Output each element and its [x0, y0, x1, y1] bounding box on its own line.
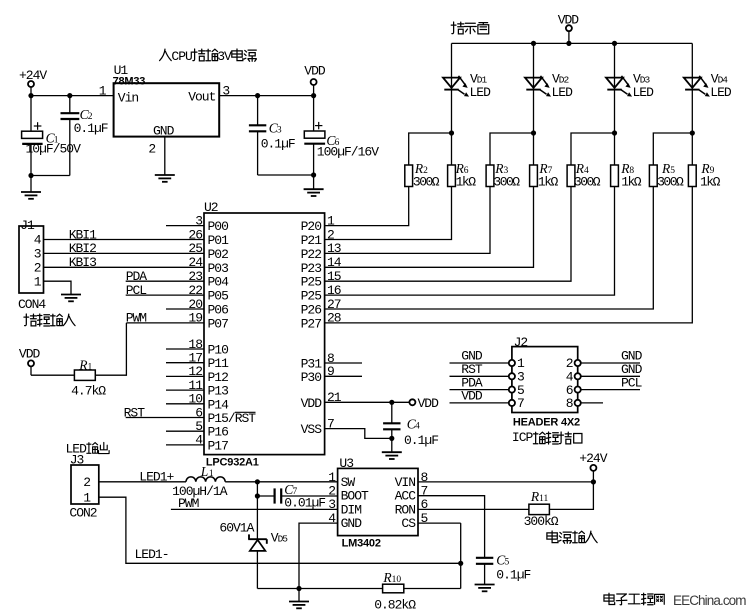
- text 指示灯: [451, 22, 488, 34]
- resistor R3 300Ω: [486, 161, 520, 189]
- net RST wire (J2 pin 3): [450, 362, 516, 379]
- svg-text:LED: LED: [470, 85, 492, 100]
- resistor R6 1kΩ: [448, 161, 477, 189]
- svg-text:Vin: Vin: [118, 90, 139, 105]
- pin 19 P07: [188, 311, 228, 332]
- svg-text:3: 3: [34, 247, 41, 262]
- regulator U1 78M33: [113, 63, 220, 138]
- pin 4 P17: [166, 433, 228, 454]
- wire P22 to resistor: [325, 187, 490, 254]
- pin 2: [328, 484, 335, 499]
- pin 5 P16: [166, 419, 228, 440]
- net PWM wire: [126, 311, 204, 326]
- svg-text:5: 5: [505, 558, 510, 568]
- svg-text:0.01µF: 0.01µF: [284, 495, 325, 510]
- ground: [304, 175, 324, 196]
- svg-text:PWM: PWM: [126, 311, 147, 326]
- pin 20 P06: [166, 297, 228, 318]
- svg-text:1kΩ: 1kΩ: [538, 175, 559, 190]
- text caption 为CPU提供3V电源: [160, 49, 257, 64]
- svg-text:LED: LED: [633, 85, 655, 100]
- wire J1 pin1 to ground: [44, 281, 72, 294]
- wire C3-C6 bottom rail: [258, 174, 314, 176]
- svg-text:D5: D5: [278, 534, 289, 545]
- svg-text:300Ω: 300Ω: [413, 175, 440, 190]
- wire jog to 300ohm column: [490, 133, 534, 165]
- svg-text:VDD: VDD: [418, 396, 440, 411]
- svg-text:P17: P17: [208, 438, 229, 453]
- wire 1k column down: [533, 133, 535, 165]
- svg-text:CPU: CPU: [171, 49, 192, 64]
- pin 25 P02: [188, 241, 228, 262]
- svg-text:PDA: PDA: [126, 269, 148, 284]
- net KBI3 wire: [44, 255, 205, 270]
- svg-text:HEADER 4X2: HEADER 4X2: [513, 417, 580, 429]
- LED VD2: [525, 43, 573, 99]
- svg-text:D3: D3: [640, 74, 651, 85]
- svg-text:10µF/50V: 10µF/50V: [26, 141, 82, 156]
- svg-text:D4: D4: [718, 74, 729, 85]
- wire jog to 300ohm column: [653, 133, 692, 165]
- net KBI2 wire: [44, 241, 205, 256]
- pin 21 VDD: [301, 390, 410, 411]
- wire P24 to resistor: [325, 187, 571, 282]
- junction: [255, 93, 316, 98]
- pin 1: [99, 83, 107, 98]
- svg-text:KBI3: KBI3: [69, 255, 96, 270]
- junction: [255, 479, 260, 484]
- junction: [389, 436, 394, 441]
- net GND wire (J2 pin 1): [450, 349, 516, 366]
- ground: [61, 295, 81, 302]
- svg-text:4.7kΩ: 4.7kΩ: [71, 383, 106, 398]
- pin 6: [421, 497, 428, 512]
- resistor R2 300Ω: [405, 161, 440, 189]
- svg-text:P25: P25: [301, 275, 322, 290]
- resistor R10 0.82k: [374, 570, 416, 612]
- wire P25 to resistor: [325, 187, 615, 296]
- diode VD5 60V1A zener: [219, 521, 288, 551]
- wire jog to 300ohm column: [409, 133, 452, 165]
- wire U1 GND to ground: [164, 137, 166, 175]
- net VDD terminal: [409, 396, 439, 411]
- svg-text:CON4: CON4: [18, 297, 46, 312]
- svg-text:Vout: Vout: [188, 89, 215, 104]
- svg-text:P00: P00: [208, 219, 229, 234]
- net PDA wire: [126, 269, 204, 284]
- text LED输出: [66, 441, 110, 456]
- svg-text:EEChina.com: EEChina.com: [673, 593, 746, 608]
- wire R1 to PWM: [95, 323, 126, 375]
- svg-text:LED: LED: [710, 85, 732, 100]
- svg-text:P20: P20: [301, 219, 322, 234]
- capacitor C6 100uF/16V: [304, 96, 379, 175]
- svg-text:P05: P05: [208, 289, 229, 304]
- pin 9 P30: [301, 364, 362, 385]
- wire P21 to resistor: [325, 187, 452, 240]
- svg-text:13: 13: [327, 241, 341, 256]
- junction: [591, 479, 596, 484]
- resistor R1 4.7k: [71, 357, 106, 398]
- wire P20 to resistor: [325, 187, 409, 226]
- svg-text:1: 1: [34, 274, 42, 289]
- ground: [289, 589, 309, 609]
- pin 24 P03: [188, 255, 228, 276]
- net VDD wire (J2 pin 7): [450, 389, 516, 406]
- svg-text:3: 3: [277, 126, 282, 136]
- net PDA wire (J2 pin 5): [450, 375, 516, 392]
- pin 1 P20: [301, 213, 335, 234]
- pin 3: [222, 83, 229, 98]
- svg-text:60V1A: 60V1A: [219, 521, 254, 536]
- junction: [531, 41, 617, 46]
- svg-text:2: 2: [34, 261, 41, 276]
- resistor R4 300Ω: [567, 161, 601, 189]
- svg-text:LPC932A1: LPC932A1: [206, 456, 259, 468]
- pin 27 P26: [301, 297, 341, 318]
- net PCL wire (J2 pin 6): [575, 375, 642, 392]
- svg-text:RST: RST: [124, 405, 146, 420]
- inductor L1 100uH/1A: [172, 464, 228, 499]
- svg-text:VDD: VDD: [19, 346, 41, 361]
- svg-text:P02: P02: [208, 247, 229, 262]
- svg-text:4: 4: [195, 433, 203, 448]
- pin 23 P04: [188, 269, 229, 290]
- connector J2 HEADER 4X2: [512, 335, 580, 429]
- svg-text:14: 14: [327, 255, 342, 270]
- wire R11 to +24V: [549, 482, 593, 510]
- junction: [311, 172, 316, 177]
- svg-text:LED1+: LED1+: [139, 470, 174, 485]
- wire R10 to CS node: [404, 588, 461, 590]
- text 按键输入: [24, 314, 75, 326]
- resistor R8 1kΩ: [611, 161, 642, 189]
- svg-text:PCL: PCL: [126, 283, 147, 298]
- wire jog to 300ohm column: [571, 133, 615, 165]
- svg-text:P22: P22: [301, 247, 322, 262]
- connector J1 CON4: [18, 218, 46, 312]
- resistor R7 1kΩ: [530, 161, 559, 189]
- LED VD1: [443, 43, 491, 99]
- junction: [255, 493, 260, 498]
- wire P27 to resistor: [325, 187, 693, 323]
- resistor R9 1kΩ: [688, 161, 720, 189]
- net +24V terminal: [579, 451, 607, 482]
- junction: [296, 586, 301, 591]
- pin 2: [148, 142, 155, 157]
- svg-text:GND: GND: [341, 516, 363, 531]
- junction: [449, 130, 454, 135]
- svg-text:ICP: ICP: [512, 430, 534, 445]
- wire LED cathode down: [691, 90, 693, 133]
- wire ground rail R10: [257, 588, 382, 590]
- IC U3 LM3402: [338, 456, 418, 550]
- net PCL wire: [126, 283, 204, 298]
- pin 26 P01: [188, 227, 229, 248]
- svg-text:15: 15: [327, 269, 341, 284]
- svg-text:2: 2: [83, 475, 90, 490]
- ground: [21, 176, 41, 199]
- net GND wire (J2 pin 4): [575, 362, 643, 379]
- svg-text:LED: LED: [552, 85, 574, 100]
- svg-text:P21: P21: [301, 233, 323, 248]
- net GND wire (J2 pin 2): [575, 349, 643, 366]
- net KBI1 wire: [44, 227, 205, 242]
- text 电源输入: [547, 531, 597, 543]
- svg-text:1: 1: [99, 83, 107, 98]
- svg-text:KBI2: KBI2: [69, 241, 96, 256]
- svg-text:1: 1: [327, 213, 335, 228]
- svg-text:3: 3: [195, 213, 202, 228]
- svg-text:P03: P03: [208, 261, 229, 276]
- resistor R11 300k: [524, 489, 559, 529]
- svg-text:PWM: PWM: [178, 496, 199, 511]
- svg-text:4: 4: [415, 422, 420, 432]
- net LED1+ wire: [99, 470, 186, 485]
- svg-text:78M33: 78M33: [113, 76, 146, 88]
- capacitor C7 0.01uF: [257, 482, 337, 510]
- svg-text:300kΩ: 300kΩ: [524, 514, 559, 529]
- svg-text:0.1µF: 0.1µF: [261, 137, 295, 152]
- pin 6 P15/RST: [195, 405, 256, 426]
- svg-text:P23: P23: [301, 261, 322, 276]
- wire 1k column down: [614, 133, 616, 165]
- junction: [531, 130, 536, 135]
- svg-text:VDD: VDD: [304, 64, 326, 79]
- svg-text:20: 20: [188, 297, 202, 312]
- LED VD4: [684, 43, 732, 99]
- wire LED cathode down: [614, 90, 616, 133]
- junction: [458, 561, 463, 566]
- IC U2 LPC932A1: [204, 200, 325, 468]
- net RST wire: [124, 405, 204, 420]
- svg-text:CS: CS: [401, 516, 416, 531]
- wire SW node to D5: [256, 496, 258, 539]
- svg-text:16: 16: [327, 283, 341, 298]
- pin 10 P14: [166, 392, 229, 413]
- svg-text:8: 8: [566, 396, 573, 411]
- pin 8: [421, 470, 428, 485]
- svg-text:LM3402: LM3402: [342, 538, 381, 550]
- svg-text:0.1µF: 0.1µF: [496, 567, 530, 582]
- wire 1k column down: [691, 133, 693, 165]
- wire P26 to resistor: [325, 187, 654, 310]
- pin 22 P05: [188, 283, 228, 304]
- svg-text:P06: P06: [208, 303, 229, 318]
- svg-text:D2: D2: [559, 74, 570, 85]
- svg-text:P25: P25: [301, 289, 322, 304]
- LED VD3: [606, 43, 654, 99]
- svg-text:11: 11: [539, 494, 548, 504]
- net +24V terminal: [19, 68, 47, 96]
- pin 17 P11: [166, 351, 229, 372]
- wire P23 to resistor: [325, 187, 534, 268]
- svg-text:300Ω: 300Ω: [574, 175, 601, 190]
- svg-text:2: 2: [148, 142, 155, 157]
- wire LED cathode down: [451, 90, 453, 133]
- svg-text:VSS: VSS: [301, 422, 323, 437]
- svg-text:1: 1: [88, 362, 93, 372]
- svg-text:+24V: +24V: [579, 451, 607, 466]
- capacitor C2 0.1uF: [61, 96, 108, 176]
- wire +24V to U1 Vin: [31, 95, 114, 97]
- wire CS down: [418, 523, 461, 588]
- svg-text:+24V: +24V: [19, 68, 47, 83]
- svg-text:P01: P01: [208, 233, 230, 248]
- svg-text:D1: D1: [477, 74, 488, 85]
- wire U3 GND to ground rail: [299, 523, 338, 588]
- wire ACC to C5: [418, 496, 485, 558]
- svg-text:1kΩ: 1kΩ: [621, 175, 642, 190]
- svg-text:PCL: PCL: [621, 375, 642, 390]
- svg-text:9: 9: [327, 364, 334, 379]
- svg-text:7: 7: [517, 396, 524, 411]
- svg-text:P26: P26: [301, 303, 322, 318]
- wire SW node down: [256, 482, 258, 496]
- pin 18 P10: [166, 337, 228, 358]
- svg-text:4: 4: [34, 233, 42, 248]
- svg-text:LED1-: LED1-: [135, 547, 169, 562]
- pin 5: [421, 511, 428, 526]
- wire VIN to +24V: [418, 481, 593, 483]
- pin 14 P23: [301, 255, 342, 276]
- svg-text:P27: P27: [301, 316, 322, 331]
- resistor R5 300Ω: [649, 161, 684, 189]
- svg-text:0.1µF: 0.1µF: [404, 433, 438, 448]
- svg-text:3V: 3V: [217, 49, 232, 64]
- capacitor C1 10uF/50V: [22, 96, 82, 176]
- capacitor C3 0.1uF: [249, 96, 295, 175]
- ground: [382, 438, 402, 459]
- svg-text:P07: P07: [208, 316, 229, 331]
- svg-text:1kΩ: 1kΩ: [456, 175, 477, 190]
- junction: [28, 93, 72, 98]
- net LED1- wire: [99, 497, 461, 563]
- pin 11 P13: [166, 378, 228, 399]
- svg-text:GND: GND: [153, 123, 175, 138]
- pin 4: [328, 511, 336, 526]
- svg-text:28: 28: [327, 311, 341, 326]
- svg-text:CON2: CON2: [69, 506, 96, 521]
- svg-text:VDD: VDD: [301, 396, 323, 411]
- svg-text:0.82kΩ: 0.82kΩ: [374, 597, 416, 612]
- pin 16 P25: [301, 283, 341, 304]
- svg-text:J2: J2: [514, 335, 528, 350]
- svg-text:1: 1: [209, 469, 214, 479]
- svg-text:0.1µF: 0.1µF: [74, 121, 108, 136]
- wire U1 Vout to VDD: [219, 95, 313, 97]
- pin 12 P12: [166, 364, 228, 385]
- pin 7: [421, 484, 428, 499]
- pin 3 P00: [166, 213, 228, 234]
- svg-text:10: 10: [392, 575, 402, 585]
- svg-text:1kΩ: 1kΩ: [700, 175, 721, 190]
- pin 15 P25: [301, 269, 341, 290]
- wire L1 to U3 SW: [225, 481, 337, 483]
- capacitor C4 0.1uF: [383, 402, 438, 448]
- wire RON to R11: [418, 508, 529, 510]
- pin 28 P27: [301, 311, 341, 332]
- pin 1: [328, 470, 336, 485]
- svg-text:1: 1: [83, 490, 91, 505]
- svg-text:300Ω: 300Ω: [657, 175, 684, 190]
- svg-text:100µF/16V: 100µF/16V: [317, 144, 379, 159]
- text watermark 电子工程网 EEChina.com: [604, 593, 746, 608]
- svg-text:P04: P04: [208, 275, 230, 290]
- junction: [28, 173, 33, 178]
- pin 2 P21: [301, 227, 334, 248]
- net PWM wire: [171, 496, 338, 511]
- svg-text:300Ω: 300Ω: [493, 175, 520, 190]
- net VDD terminal: [558, 12, 580, 43]
- svg-text:P30: P30: [301, 370, 322, 385]
- wire C1-C2 bottom rail: [31, 175, 70, 177]
- text ICP编程接口: [512, 430, 582, 445]
- wire LED cathode down: [533, 90, 535, 133]
- svg-text:VDD: VDD: [461, 389, 483, 404]
- junction: [389, 400, 394, 405]
- pin 8 P31: [301, 351, 362, 372]
- net VDD terminal: [19, 346, 41, 375]
- ground: [475, 585, 495, 592]
- pin 7 VSS: [301, 416, 392, 438]
- ground: [155, 175, 175, 182]
- svg-text:KBI1: KBI1: [69, 227, 97, 242]
- wire VDD to R1: [31, 374, 74, 376]
- wire J2 pin 8 stub: [575, 400, 603, 406]
- capacitor C5 0.1uF: [476, 553, 531, 585]
- junction: [690, 130, 695, 135]
- junction: [612, 130, 617, 135]
- connector J3 CON2: [69, 453, 98, 521]
- svg-text:L: L: [200, 464, 209, 479]
- net VDD terminal: [304, 64, 326, 96]
- wire 1k column down: [451, 133, 453, 165]
- wire VDD rail: [452, 42, 693, 44]
- svg-text:27: 27: [327, 297, 341, 312]
- wire D5 to ground rail: [256, 551, 258, 589]
- svg-text:2: 2: [327, 227, 334, 242]
- pin 13 P22: [301, 241, 341, 262]
- pin 3: [328, 497, 335, 512]
